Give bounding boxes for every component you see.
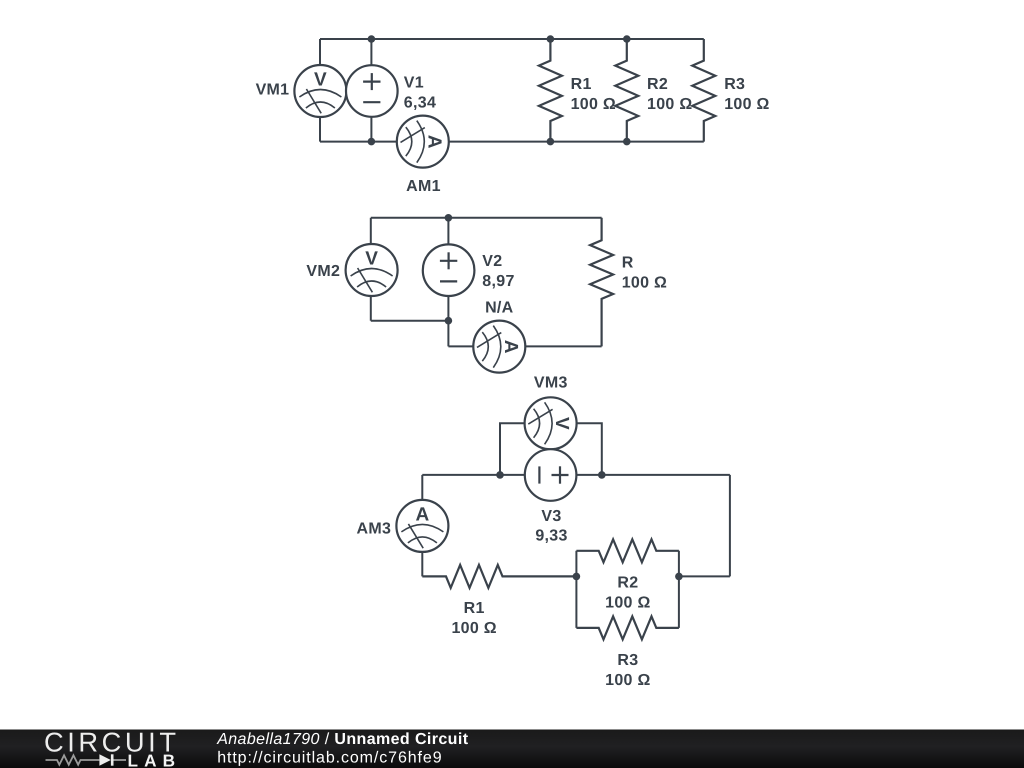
logo diode [99, 754, 110, 765]
svg-text:V: V [551, 417, 572, 430]
wire VM3 right branch [577, 423, 602, 475]
wire bottom rail left circuit 1 [320, 141, 397, 143]
wire VM1 bottom branch [319, 117, 321, 142]
node R1 top junction [547, 35, 555, 43]
footer bar background [0, 730, 1024, 768]
wire R2R3 box left vertical [575, 551, 577, 628]
wire VM2 top branch [370, 218, 372, 244]
resistor R2 (bottom circuit) [576, 539, 679, 562]
wire right vertical [729, 475, 731, 577]
wire top rail circuit 2 [371, 217, 602, 219]
voltage source V3 [525, 449, 577, 501]
node R2 top junction [623, 35, 631, 43]
logo diode-LAB wire [114, 759, 127, 761]
wire right to R2R3 box [679, 575, 730, 577]
voltmeter VM2 [346, 244, 398, 296]
ammeter AM3 [396, 500, 448, 552]
node VM3 right junction [598, 471, 606, 479]
node VM3 left junction [496, 471, 504, 479]
resistor R2 (top circuit) [615, 39, 638, 142]
svg-text:N/A: N/A [485, 300, 514, 317]
wire V2 bottom branch [447, 296, 449, 346]
wire VM1 top branch [319, 39, 321, 65]
voltmeter VM3 [525, 397, 577, 449]
resistor R3 (bottom circuit) [576, 616, 679, 639]
wire main right (V3 to right side) [577, 474, 730, 476]
svg-text:LAB: LAB [128, 750, 182, 768]
wire R2R3 box right vertical [678, 551, 680, 628]
wire V2 top branch [447, 218, 449, 244]
svg-text:V: V [314, 70, 327, 91]
wire V1 top branch [370, 39, 372, 65]
svg-text:A: A [416, 504, 430, 525]
node R2R3 left junction [573, 573, 581, 581]
node R1 bottom junction [547, 138, 555, 146]
svg-text:VM1: VM1 [256, 82, 290, 99]
svg-text:AM3: AM3 [357, 521, 392, 538]
wire V2 to AM2 [448, 345, 473, 347]
wire AM3 top branch [421, 475, 423, 500]
svg-text:VM3: VM3 [534, 375, 568, 392]
svg-text:Anabella1790 / Unnamed Circuit: Anabella1790 / Unnamed Circuit [216, 731, 469, 748]
svg-text:A: A [500, 340, 521, 354]
svg-text:A: A [423, 135, 444, 149]
svg-text:http://circuitlab.com/c76hfe9: http://circuitlab.com/c76hfe9 [217, 750, 442, 767]
wire VM3 left branch [500, 423, 525, 475]
wire AM2 to R [525, 345, 601, 347]
svg-text:VM2: VM2 [306, 263, 340, 280]
wire VM2 bottom branch [370, 296, 372, 321]
node V1 top junction [368, 35, 376, 43]
resistor R (middle circuit) [590, 218, 613, 347]
resistor R1 (top circuit) [539, 39, 562, 142]
wire bottom rail right circuit 1 [448, 141, 704, 143]
voltage source V1 [346, 65, 398, 117]
wire main left (AM3 to V3) [422, 474, 524, 476]
node V2 top junction [445, 214, 453, 222]
ammeter N/A (AM2) [473, 321, 525, 373]
svg-text:AM1: AM1 [406, 178, 441, 195]
wire VM2 to V2 bottom [371, 320, 449, 322]
node V2 bottom junction [445, 317, 453, 325]
voltmeter VM1 [294, 65, 346, 117]
node V1 bottom junction [368, 138, 376, 146]
wire AM3 bottom branch [421, 552, 423, 577]
svg-text:V: V [365, 249, 378, 270]
resistor R1 (bottom circuit) [422, 565, 576, 588]
wire V1 bottom branch [370, 117, 372, 142]
node R2 bottom junction [623, 138, 631, 146]
node R2R3 right junction [675, 573, 683, 581]
ammeter AM1 [397, 116, 449, 168]
resistor R3 (top circuit) [692, 39, 715, 142]
voltage source V2 [423, 244, 475, 296]
logo wire + resistor zigzag [46, 755, 100, 764]
wire top rail circuit 1 [320, 38, 704, 40]
